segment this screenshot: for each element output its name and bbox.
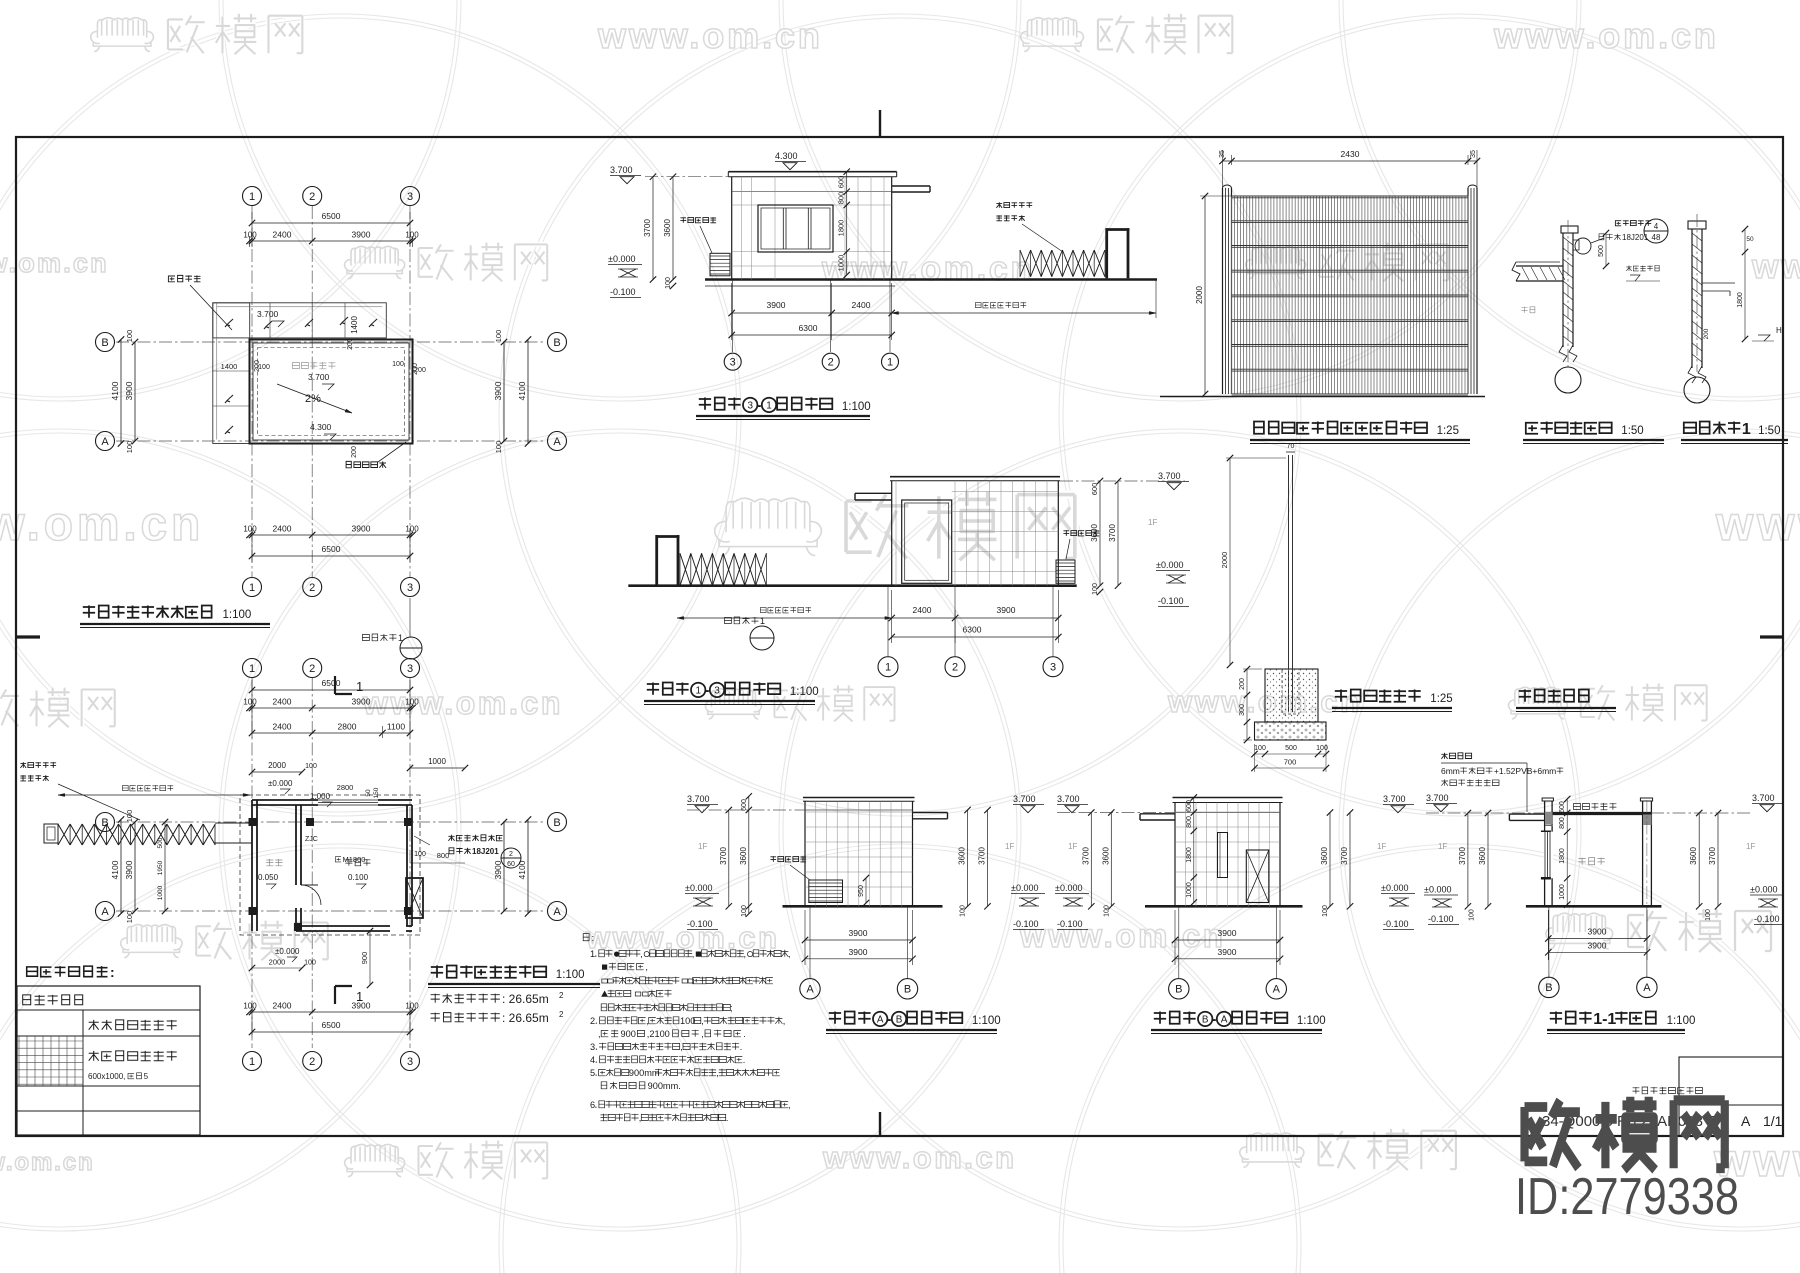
svg-text:2400: 2400	[913, 605, 932, 615]
svg-text:,: ,	[640, 949, 643, 959]
svg-text:ZJC: ZJC	[305, 836, 318, 843]
svg-text:,: ,	[701, 1029, 704, 1039]
svg-text:,: ,	[788, 949, 791, 959]
svg-text:4.300: 4.300	[310, 422, 332, 432]
svg-text:3600: 3600	[663, 219, 672, 237]
svg-text:100: 100	[414, 851, 426, 858]
svg-text:2: 2	[309, 582, 315, 594]
svg-text:1: 1	[695, 686, 701, 697]
svg-text:2: 2	[828, 357, 834, 369]
svg-text:,: ,	[701, 1016, 704, 1026]
svg-text:2: 2	[509, 851, 513, 858]
svg-text:A: A	[553, 436, 561, 448]
svg-text:-0.100: -0.100	[610, 287, 636, 297]
svg-text:±0.000: ±0.000	[1156, 560, 1183, 570]
svg-text:1: 1	[885, 662, 891, 674]
svg-text:1F: 1F	[1438, 842, 1447, 851]
svg-text:1F: 1F	[1068, 842, 1077, 851]
svg-text:-0.100: -0.100	[1013, 919, 1039, 929]
svg-text:6300: 6300	[799, 323, 818, 333]
svg-text:100: 100	[741, 905, 748, 917]
svg-text:A: A	[553, 906, 561, 918]
svg-text:100: 100	[243, 1002, 257, 1011]
svg-text:3900: 3900	[352, 524, 371, 534]
svg-text:3700: 3700	[1108, 524, 1117, 542]
svg-text:60: 60	[507, 861, 515, 868]
svg-text:A: A	[1221, 1015, 1228, 1026]
svg-text:M1800: M1800	[343, 855, 366, 864]
svg-text:1:100: 1:100	[556, 969, 585, 981]
svg-text:.: .	[743, 1029, 746, 1039]
svg-text:3900: 3900	[767, 300, 786, 310]
svg-text:3900: 3900	[352, 697, 371, 707]
svg-text:2400: 2400	[273, 1001, 292, 1011]
svg-text:100: 100	[392, 361, 404, 368]
svg-text:1:25: 1:25	[1430, 693, 1452, 705]
svg-text:2400: 2400	[852, 300, 871, 310]
svg-text:: 26.65m: : 26.65m	[502, 992, 549, 1006]
svg-text:1950: 1950	[157, 860, 164, 875]
svg-text:B: B	[553, 337, 560, 349]
svg-text:±0.000: ±0.000	[1750, 885, 1777, 895]
svg-text:-0.100: -0.100	[1754, 914, 1780, 924]
svg-text:3: 3	[730, 357, 736, 369]
svg-text:2: 2	[590, 1016, 595, 1026]
svg-text:2: 2	[559, 1010, 564, 1019]
svg-text:-: -	[1211, 1011, 1216, 1028]
svg-text:,: ,	[598, 1029, 601, 1039]
svg-text:70: 70	[1287, 443, 1295, 450]
svg-text:100: 100	[1322, 905, 1329, 917]
svg-text:50: 50	[365, 789, 372, 797]
svg-text:2430: 2430	[1341, 149, 1360, 159]
svg-text:,: ,	[692, 949, 695, 959]
svg-text:,: ,	[680, 1042, 683, 1052]
svg-text:800: 800	[1559, 817, 1566, 829]
svg-text:4: 4	[1654, 222, 1659, 231]
svg-text:100: 100	[305, 763, 317, 770]
svg-text:1: 1	[356, 679, 363, 694]
svg-text:1: 1	[590, 949, 595, 959]
svg-text:1F: 1F	[1148, 518, 1157, 527]
svg-text:-0.100: -0.100	[1428, 914, 1454, 924]
svg-text:1:100: 1:100	[223, 609, 252, 621]
svg-text:1800: 1800	[1186, 847, 1193, 863]
svg-text:600: 600	[1186, 800, 1193, 812]
svg-text:3700: 3700	[719, 847, 728, 865]
svg-text:3.700: 3.700	[610, 165, 633, 175]
svg-text:B: B	[1202, 1015, 1209, 1026]
svg-text:2: 2	[559, 991, 564, 1000]
svg-text:-0.100: -0.100	[1383, 919, 1409, 929]
svg-text:3700: 3700	[1708, 847, 1717, 865]
svg-text:100: 100	[1103, 905, 1110, 917]
svg-text:1:50: 1:50	[1758, 425, 1780, 437]
svg-text:±0.000: ±0.000	[1055, 883, 1082, 893]
svg-text:±0.000: ±0.000	[1381, 883, 1408, 893]
svg-text:1: 1	[249, 582, 255, 594]
svg-text:4.300: 4.300	[775, 151, 798, 161]
svg-text:3900: 3900	[1218, 947, 1237, 957]
svg-text:3900: 3900	[849, 928, 868, 938]
svg-text:±0.000: ±0.000	[1424, 885, 1451, 895]
svg-text:3: 3	[407, 582, 413, 594]
svg-text:1:100: 1:100	[1667, 1015, 1696, 1027]
svg-text:100: 100	[258, 364, 270, 371]
svg-text:3.700: 3.700	[1383, 794, 1406, 804]
svg-text:-0.100: -0.100	[1057, 919, 1083, 929]
svg-text:2400: 2400	[273, 230, 292, 240]
svg-text:2400: 2400	[273, 697, 292, 707]
svg-text:1000: 1000	[428, 757, 446, 766]
svg-text:200: 200	[414, 367, 426, 374]
svg-text:6500: 6500	[322, 544, 341, 554]
svg-text:600: 600	[837, 176, 846, 189]
svg-text:,: ,	[788, 1100, 791, 1110]
svg-text:3700: 3700	[1340, 847, 1349, 865]
svg-text::: :	[110, 964, 115, 980]
svg-text:±0.000: ±0.000	[268, 779, 293, 788]
svg-text:A: A	[877, 1015, 884, 1026]
svg-text:2: 2	[309, 191, 315, 203]
svg-text:2: 2	[309, 663, 315, 675]
svg-text:B: B	[101, 337, 108, 349]
svg-text:100: 100	[1254, 745, 1266, 752]
svg-text:100: 100	[125, 810, 134, 823]
svg-text:1:100: 1:100	[1297, 1015, 1326, 1027]
svg-text:100: 100	[405, 698, 419, 707]
svg-text:-: -	[704, 682, 709, 699]
svg-text:100: 100	[405, 231, 419, 240]
svg-text:3600: 3600	[1689, 847, 1698, 865]
svg-text:B: B	[896, 1015, 903, 1026]
svg-text:600: 600	[1090, 483, 1099, 496]
svg-text:3900: 3900	[1588, 940, 1607, 950]
svg-text:2800: 2800	[338, 722, 357, 732]
svg-text:1: 1	[1742, 421, 1751, 438]
svg-text:2400: 2400	[273, 722, 292, 732]
svg-text:,2100: ,2100	[647, 1029, 670, 1039]
svg-text:1: 1	[249, 663, 255, 675]
svg-text:1000: 1000	[837, 255, 846, 272]
svg-text:200: 200	[347, 338, 354, 350]
svg-text:A: A	[101, 906, 109, 918]
svg-text:-: -	[756, 397, 761, 414]
svg-text:2800: 2800	[337, 783, 354, 792]
svg-text:900: 900	[360, 952, 369, 965]
svg-text:3.700: 3.700	[1013, 794, 1036, 804]
svg-text:1800: 1800	[837, 220, 846, 237]
svg-text:500: 500	[1285, 745, 1297, 752]
svg-text:3600: 3600	[739, 847, 748, 865]
svg-text:200: 200	[1703, 328, 1710, 339]
svg-text:100: 100	[304, 960, 316, 967]
svg-text:,: ,	[744, 949, 747, 959]
svg-text:±0.000: ±0.000	[608, 254, 635, 264]
svg-text:4100: 4100	[517, 860, 527, 879]
svg-text:3.700: 3.700	[257, 309, 279, 319]
svg-text:100: 100	[405, 525, 419, 534]
svg-text:3600: 3600	[1101, 847, 1110, 865]
svg-text:100: 100	[1469, 909, 1476, 921]
svg-text:3900: 3900	[1218, 928, 1237, 938]
svg-text:B: B	[1545, 982, 1552, 994]
svg-text:2400: 2400	[273, 524, 292, 534]
svg-text:1F: 1F	[1005, 842, 1014, 851]
svg-text:1: 1	[249, 1056, 255, 1068]
svg-text:1:100: 1:100	[790, 686, 819, 698]
svg-text:,: ,	[645, 962, 648, 972]
svg-text:1.000: 1.000	[310, 792, 331, 801]
svg-text:3: 3	[714, 686, 720, 697]
svg-text:1: 1	[887, 357, 893, 369]
svg-text::: :	[592, 933, 595, 944]
svg-text:2000: 2000	[1220, 552, 1229, 569]
svg-text:2%: 2%	[305, 393, 321, 405]
svg-text:6: 6	[590, 1100, 595, 1110]
svg-text:3: 3	[747, 401, 753, 412]
svg-text:3900: 3900	[352, 230, 371, 240]
svg-text:1: 1	[760, 616, 765, 626]
svg-text:100: 100	[243, 231, 257, 240]
svg-text:800: 800	[1186, 816, 1193, 828]
svg-text:-: -	[886, 1011, 891, 1028]
svg-text:100: 100	[960, 905, 967, 917]
svg-text:1/1: 1/1	[1763, 1113, 1783, 1129]
svg-text:,: ,	[716, 1068, 719, 1078]
svg-text:300: 300	[1239, 704, 1246, 716]
svg-text:100: 100	[243, 698, 257, 707]
svg-text:3700: 3700	[1458, 847, 1467, 865]
svg-text:500: 500	[1598, 245, 1605, 257]
svg-text:1100: 1100	[387, 722, 406, 732]
svg-text:50: 50	[1746, 236, 1754, 243]
svg-text:3600: 3600	[1478, 847, 1487, 865]
svg-text:1:50: 1:50	[1621, 425, 1643, 437]
svg-text:1000: 1000	[1559, 884, 1566, 900]
svg-text:35: 35	[1470, 150, 1477, 158]
svg-text:800: 800	[437, 851, 450, 860]
svg-text:,: ,	[646, 1016, 649, 1026]
svg-text:6500: 6500	[322, 211, 341, 221]
svg-text:1-1: 1-1	[1593, 1011, 1616, 1028]
svg-text:.: .	[740, 1042, 743, 1052]
svg-text:4100: 4100	[517, 381, 527, 400]
svg-text:18J201: 18J201	[472, 847, 499, 856]
svg-text:1:25: 1:25	[1437, 425, 1459, 437]
svg-text:1:100: 1:100	[842, 401, 871, 413]
svg-text:±0.000: ±0.000	[1011, 883, 1038, 893]
svg-text:3: 3	[407, 1056, 413, 1068]
svg-text:.: .	[743, 1055, 746, 1065]
svg-text:2000: 2000	[268, 761, 286, 770]
svg-text:3.700: 3.700	[687, 794, 710, 804]
svg-text:3700: 3700	[643, 219, 652, 237]
svg-text:2: 2	[952, 662, 958, 674]
svg-text:100: 100	[494, 441, 503, 454]
svg-text:100: 100	[243, 525, 257, 534]
svg-text:3.700: 3.700	[1426, 793, 1449, 803]
svg-text:1: 1	[766, 401, 772, 412]
svg-text:100: 100	[1705, 909, 1712, 921]
svg-text:+1.52PVB+6mm: +1.52PVB+6mm	[1494, 766, 1556, 776]
svg-text:3700: 3700	[978, 847, 987, 865]
svg-text:150: 150	[373, 787, 380, 798]
svg-text:B: B	[553, 817, 560, 829]
svg-text:3600: 3600	[958, 847, 967, 865]
svg-text:1000: 1000	[157, 885, 164, 900]
svg-text:2000: 2000	[1195, 286, 1204, 304]
svg-text:900: 900	[621, 1029, 636, 1039]
svg-text:3: 3	[407, 663, 413, 675]
svg-text:6mm: 6mm	[1441, 766, 1460, 776]
svg-text:950: 950	[858, 885, 865, 897]
svg-text:,: ,	[783, 1016, 786, 1026]
svg-text:±0.000: ±0.000	[685, 883, 712, 893]
svg-text:,: ,	[639, 1113, 642, 1123]
svg-text:500: 500	[157, 837, 164, 848]
svg-text:3.700: 3.700	[308, 372, 330, 382]
svg-text:100: 100	[665, 277, 672, 289]
svg-text:5: 5	[590, 1068, 595, 1078]
svg-text:A: A	[1643, 982, 1651, 994]
svg-text:1:100: 1:100	[972, 1015, 1001, 1027]
svg-text:6300: 6300	[963, 625, 982, 635]
svg-text:700: 700	[1284, 758, 1297, 767]
svg-text:1800: 1800	[1737, 292, 1744, 308]
svg-text:800: 800	[837, 192, 846, 205]
svg-text:3.700: 3.700	[1752, 793, 1775, 803]
svg-text:ID:2779338: ID:2779338	[1515, 1168, 1739, 1226]
svg-text:1: 1	[356, 989, 363, 1004]
svg-text:2: 2	[309, 1056, 315, 1068]
svg-text:1000: 1000	[1186, 882, 1193, 898]
svg-text:3900: 3900	[493, 381, 503, 400]
svg-text:1F: 1F	[698, 842, 707, 851]
svg-text:3: 3	[1050, 662, 1056, 674]
svg-text:3600: 3600	[1090, 524, 1099, 542]
svg-text:600: 600	[1559, 801, 1566, 813]
svg-text:6500: 6500	[322, 1020, 341, 1030]
svg-text:A: A	[1273, 984, 1281, 996]
svg-text:100: 100	[125, 441, 134, 454]
svg-text:A: A	[806, 984, 814, 996]
svg-text:1F: 1F	[1746, 842, 1755, 851]
svg-text:4100: 4100	[110, 381, 120, 400]
svg-text:0.050: 0.050	[258, 873, 279, 882]
svg-text:600: 600	[741, 799, 748, 811]
svg-text:2000: 2000	[269, 958, 286, 967]
svg-text:3.700: 3.700	[1057, 794, 1080, 804]
svg-text:600x1000,: 600x1000,	[88, 1072, 125, 1081]
svg-text:200: 200	[1239, 678, 1246, 690]
svg-text:A: A	[1741, 1113, 1751, 1129]
svg-text:100: 100	[1092, 583, 1099, 595]
svg-text:0.100: 0.100	[348, 873, 369, 882]
svg-text:±0.000: ±0.000	[275, 947, 300, 956]
svg-text:100: 100	[125, 330, 134, 343]
svg-text:A: A	[101, 436, 109, 448]
svg-text:3900: 3900	[124, 381, 134, 400]
svg-text:100: 100	[494, 330, 503, 343]
svg-text:6500: 6500	[322, 678, 341, 688]
svg-text:1400: 1400	[350, 316, 359, 334]
svg-text:.: .	[726, 1113, 729, 1123]
svg-text:3900: 3900	[849, 947, 868, 957]
svg-text:B: B	[904, 984, 911, 996]
svg-text:3600: 3600	[1320, 847, 1329, 865]
svg-text:3.700: 3.700	[1158, 471, 1181, 481]
svg-text:H: H	[1776, 326, 1782, 335]
svg-text:200: 200	[351, 446, 358, 458]
svg-text:100: 100	[405, 1002, 419, 1011]
svg-text:: 26.65m: : 26.65m	[502, 1011, 549, 1025]
svg-text:3700: 3700	[1081, 847, 1090, 865]
svg-text:3: 3	[590, 1042, 595, 1052]
svg-text:-0.100: -0.100	[1158, 596, 1184, 606]
svg-text:3900: 3900	[124, 860, 134, 879]
svg-text:100: 100	[125, 911, 134, 924]
svg-text:B: B	[1175, 984, 1182, 996]
svg-text:1400: 1400	[221, 362, 238, 371]
svg-text:3: 3	[407, 191, 413, 203]
svg-text:3900: 3900	[493, 860, 503, 879]
svg-text:3900: 3900	[1588, 927, 1607, 937]
svg-text:4100: 4100	[110, 860, 120, 879]
svg-text:3900: 3900	[997, 605, 1016, 615]
svg-text:900mm.: 900mm.	[648, 1081, 681, 1091]
svg-text:-0.100: -0.100	[687, 919, 713, 929]
svg-text:1: 1	[249, 191, 255, 203]
svg-text:4: 4	[590, 1055, 595, 1065]
svg-text:1F: 1F	[1377, 842, 1386, 851]
svg-text:1800: 1800	[1559, 848, 1566, 864]
svg-text:100: 100	[680, 1016, 695, 1026]
svg-text:5: 5	[144, 1072, 149, 1081]
svg-text:48: 48	[1652, 233, 1661, 242]
